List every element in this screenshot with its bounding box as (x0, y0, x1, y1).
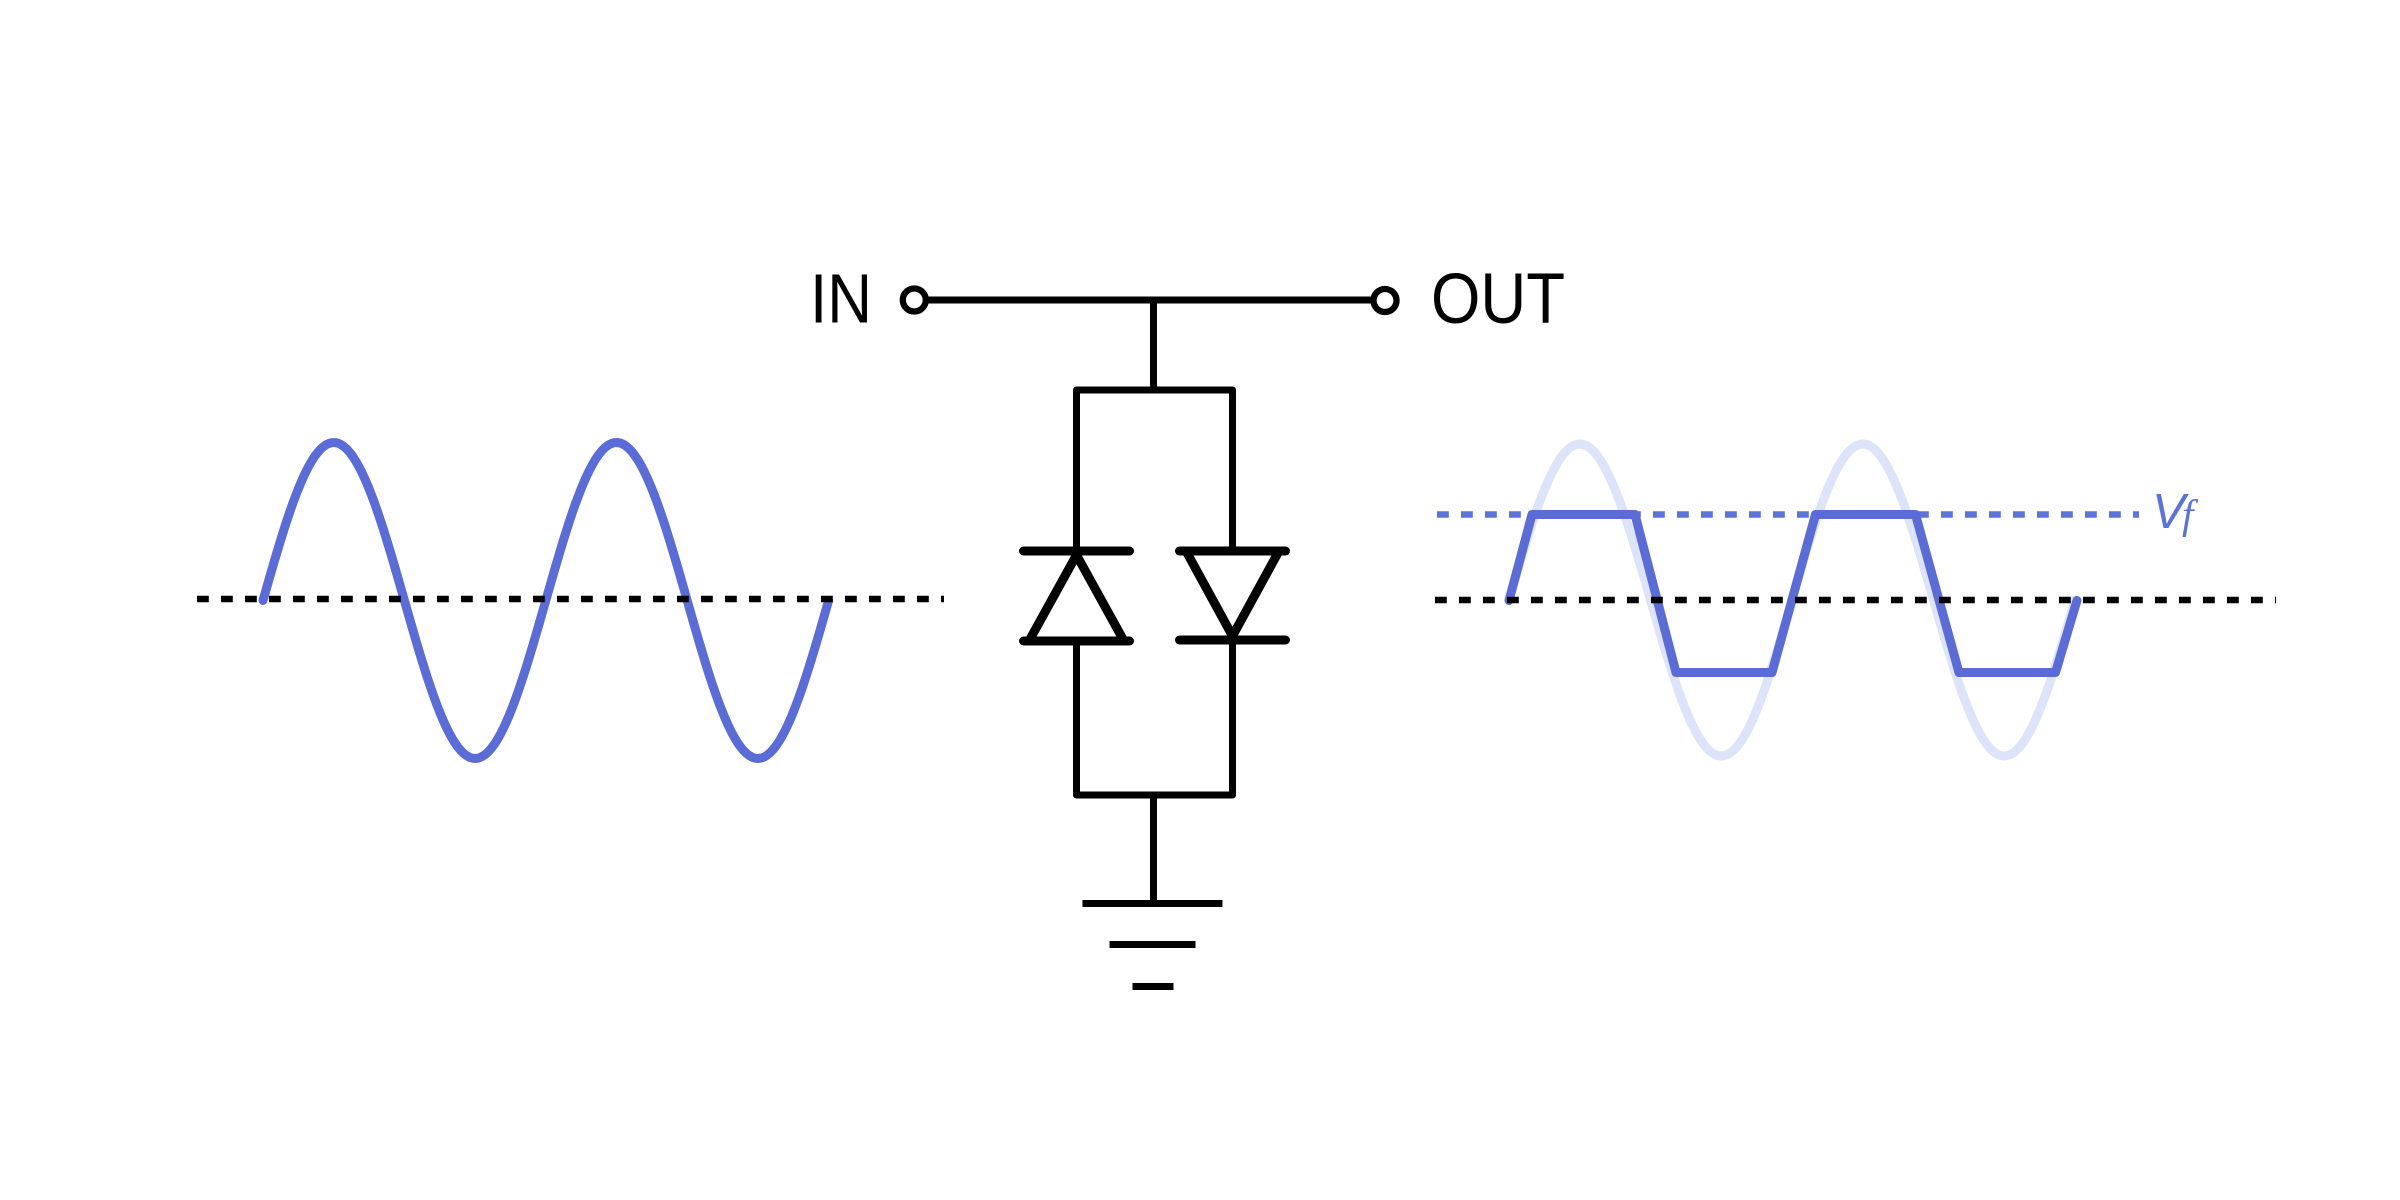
input sine wave (Vin) (263, 443, 829, 759)
wire top rail of diode pair (1077, 390, 1233, 551)
diode D1 triangle (1029, 555, 1124, 641)
ground symbol bar 2 (1110, 941, 1196, 948)
svg-text:IN: IN (810, 260, 872, 338)
wire to ground (1150, 795, 1157, 903)
diode D1 (anode down, cathode up) cathode bar (1024, 547, 1130, 556)
ground symbol bar 1 (1083, 900, 1223, 907)
diode D1 anode base line (1024, 637, 1130, 646)
Vf clipping-level dashed line (1437, 511, 2139, 518)
wire bottom rail of diode pair (1077, 640, 1233, 795)
output zero-reference dashed line (1435, 597, 2276, 604)
diode D2 (anode up, cathode down) anode top line (1180, 547, 1286, 556)
input zero-reference dashed line (197, 596, 944, 603)
wire IN to OUT (928, 297, 1371, 304)
svg-text:OUT: OUT (1431, 260, 1565, 339)
terminal IN (903, 289, 926, 312)
terminal OUT (1374, 289, 1397, 312)
diode D2 cathode bar (1180, 636, 1286, 645)
svg-text:f: f (2182, 491, 2199, 537)
wire junction stub down from IN-OUT wire (1150, 300, 1157, 390)
unclipped output sine (faint) (1509, 444, 2075, 756)
ground symbol bar 3 (1133, 983, 1174, 990)
clipped output waveform (Vout) (1509, 515, 2077, 673)
diode D2 triangle (1186, 551, 1279, 636)
